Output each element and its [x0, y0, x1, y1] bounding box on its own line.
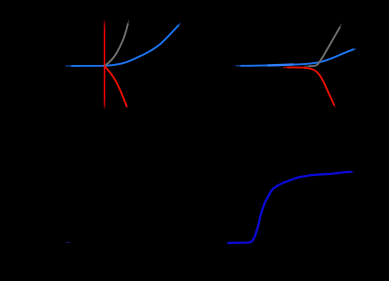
red flat-then-plunging curve (top-right panel)	[288, 67, 334, 104]
blue gently-rising curve (top-right panel)	[241, 49, 354, 65]
gray steep curve (top-left panel)	[104, 24, 128, 66]
red vertical asymptote line (top-left panel)	[104, 20, 106, 109]
navy sigmoid left fade-in tail (bottom-right panel)	[228, 242, 233, 244]
faint navy dash (bottom-left panel)	[67, 241, 70, 243]
gray curve with vertical-tangent bend rising steeply (top-right panel)	[309, 27, 340, 66]
sigmoid right tip fade (bottom-right panel)	[351, 171, 354, 173]
navy sigmoid mid fade tail (bottom-right panel)	[232, 242, 241, 244]
blue exponential-like curve (top-left panel)	[72, 25, 178, 66]
gray curve tip fade (top-left panel)	[127, 21, 130, 25]
navy sigmoid titration-like curve (bottom-right panel)	[228, 172, 350, 243]
red curve bottom fade (top-right panel)	[334, 105, 335, 107]
blue overlay thickening segment (top-right panel)	[268, 64, 293, 65]
gray curve top fade (top-right panel)	[340, 24, 341, 27]
blue curve tip fade (top-left panel)	[178, 24, 180, 26]
blue curve right tip fade (top-right panel)	[353, 48, 355, 51]
red left fade-in tail (top-right panel)	[284, 66, 289, 68]
blue curve left fade-in tail (top-right panel)	[236, 65, 243, 67]
red descending curve (top-left panel)	[104, 66, 126, 107]
blue curve left fade-in tail (top-left panel)	[66, 65, 74, 67]
gray dark fade-in tail (top-right panel)	[305, 65, 311, 67]
